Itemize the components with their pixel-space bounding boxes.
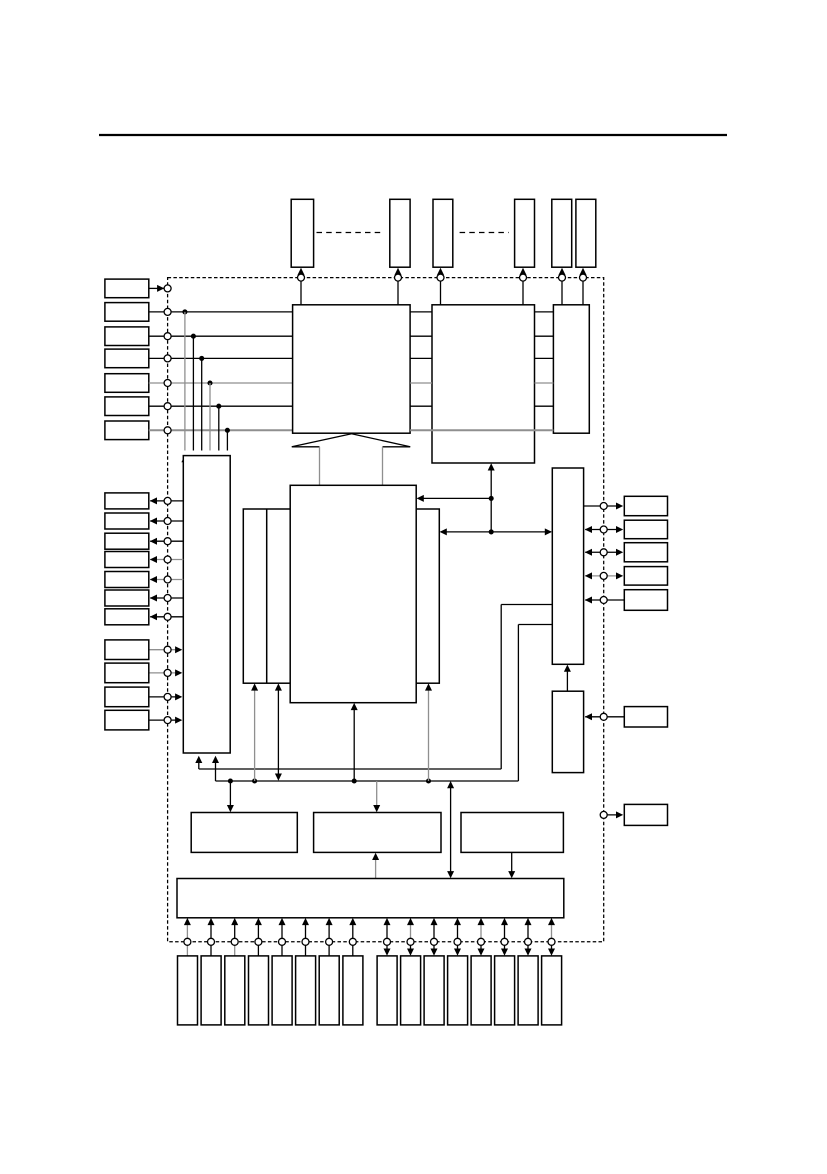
box D2 (bottom-middle): [314, 813, 441, 853]
left output box B3: [105, 533, 149, 549]
left input wire n1: [149, 646, 183, 653]
wire D3 to U9: [508, 852, 515, 878]
right io box R6: [624, 707, 667, 727]
bus line 1 U4 to U7: [195, 605, 552, 770]
right terminal wire 2: [585, 526, 623, 533]
bottom terminal a2: [208, 918, 215, 956]
bottom terminal a8: [349, 918, 356, 956]
wire row 4 from box A5 to block U1: [149, 380, 293, 387]
bottom terminal b8: [548, 918, 555, 956]
wire W2 U5-U7 bidirectional: [440, 528, 552, 535]
left input wire n3: [149, 693, 183, 700]
right terminal wire 7: [600, 811, 623, 818]
right terminal wire 3: [585, 549, 623, 556]
tap wire 1 to block U4: [181, 309, 188, 462]
left input box A3: [105, 327, 149, 346]
bottom terminal b5: [478, 918, 485, 956]
wire from node J1 up into U2: [488, 463, 495, 534]
tap wire 4 to block U4: [207, 380, 214, 462]
right io box R1: [624, 496, 667, 515]
bottom terminal b4: [454, 918, 461, 956]
left input box C4: [105, 710, 149, 730]
bottom box F1: [377, 956, 397, 1025]
bottom box F3: [424, 956, 444, 1025]
top pin box T5: [552, 199, 572, 267]
wire U8 to U7: [564, 665, 571, 692]
tap wire 3 to block U4: [198, 356, 205, 462]
bidir wire bus2 to U9: [447, 781, 454, 878]
bus stub U1-U2 row 4: [410, 382, 432, 384]
top terminal wire 4: [520, 268, 527, 306]
bus stub U1-U2 row 1: [410, 311, 432, 313]
bottom terminal a3: [231, 918, 238, 956]
left input wire n4: [149, 717, 183, 724]
left output wire m2: [150, 518, 184, 525]
top pin box T4: [515, 199, 535, 267]
top pin box T1: [291, 199, 313, 267]
bottom box F6: [495, 956, 515, 1025]
branch up to U5 (left, gray): [251, 683, 258, 783]
top terminal wire 3: [437, 268, 444, 306]
wire A1 to boundary terminal: [149, 285, 171, 292]
left input wire n2: [149, 669, 183, 676]
bottom box F2: [401, 956, 421, 1025]
left input box A5: [105, 374, 149, 393]
wide block-arrow from U6 into U1: [292, 434, 410, 486]
right io box R7: [624, 804, 667, 825]
gray bus row 6 over U2: [410, 429, 553, 431]
bus stub U1-U2 row 2: [410, 335, 432, 337]
ellipsis dash between T3 and T4: [460, 232, 509, 234]
right terminal wire 5: [585, 597, 625, 604]
left output wire m3: [150, 538, 184, 545]
chip boundary (dashed): [168, 278, 604, 942]
bus stub U1-U2 row 5: [410, 405, 432, 407]
block U7 (right tall): [552, 468, 583, 664]
bottom terminal b7: [525, 918, 532, 956]
bottom terminal a4: [255, 918, 262, 956]
tap wire 6 to block U4: [224, 428, 231, 462]
right terminal wire 1: [584, 503, 624, 510]
bottom box E6: [296, 956, 316, 1025]
left output box B4: [105, 552, 149, 568]
bottom box E7: [319, 956, 339, 1025]
block U6 (center inner, overlaps U5): [290, 485, 416, 702]
tap wire 5 to block U4: [215, 404, 222, 463]
box D1 (bottom-left): [191, 813, 297, 853]
right io box R3: [624, 543, 667, 562]
right io box R2: [624, 520, 667, 539]
left output wire m4: [150, 556, 184, 563]
block U4 (left tall): [183, 456, 230, 753]
header rule: [99, 134, 727, 136]
divider in U5: [266, 509, 268, 683]
left input box A4: [105, 349, 149, 368]
left output box B6: [105, 590, 149, 606]
branch to box D1: [227, 778, 234, 812]
left output box B5: [105, 572, 149, 588]
top pin box T2: [390, 199, 410, 267]
left output box B7: [105, 609, 149, 625]
block U1 (top-left): [293, 305, 411, 433]
bottom terminal a5: [279, 918, 286, 956]
box D3 (bottom-right): [461, 813, 563, 853]
bus stub U2-U3 row 3: [535, 357, 554, 359]
left output box B2: [105, 513, 149, 529]
bottom terminal a7: [326, 918, 333, 956]
bus stub U2-U3 row 4: [535, 382, 554, 384]
bottom box E4: [249, 956, 269, 1025]
wire row 6 from box A7 to block U1: [149, 427, 293, 434]
wire row 5 from box A6 to block U1: [149, 403, 293, 410]
tap wire 2 to block U4: [190, 334, 197, 463]
left input box A1: [105, 279, 149, 298]
wire U9 to D2 (gray): [372, 853, 379, 879]
top terminal wire 5: [559, 268, 566, 306]
bottom box F8: [542, 956, 562, 1025]
bottom box F4: [448, 956, 468, 1025]
block U8 (right lower): [552, 691, 583, 772]
bus stub U2-U3 row 1: [535, 311, 554, 313]
left input box C1: [105, 640, 149, 660]
branch up to U5 (right, gray): [425, 683, 432, 783]
top terminal wire 6: [580, 268, 587, 306]
right terminal wire 6: [585, 713, 625, 720]
wire row 2 from box A3 to block U1: [149, 333, 293, 340]
bus stub U2-U3 row 2: [535, 335, 554, 337]
left input box A2: [105, 303, 149, 322]
branch up to U6: [351, 703, 358, 784]
top terminal wire 1: [298, 268, 305, 306]
block U3 (top-right narrow): [553, 305, 589, 433]
left input box A6: [105, 397, 149, 416]
bottom box E2: [201, 956, 221, 1025]
left output wire m6: [150, 595, 184, 602]
left output wire m5: [150, 576, 184, 583]
bottom terminal b2: [407, 918, 414, 956]
bottom box F5: [471, 956, 491, 1025]
bus stub U2-U3 row 5: [535, 405, 554, 407]
right terminal wire 4: [585, 572, 623, 579]
block U2 (top-middle): [432, 305, 535, 463]
block U5 (center outer): [243, 509, 439, 683]
bottom box E3: [225, 956, 245, 1025]
top pin box T3: [433, 199, 453, 267]
bottom box F7: [518, 956, 538, 1025]
branch down to box D2 (gray): [373, 781, 380, 812]
bottom terminal b1: [384, 918, 391, 956]
top terminal wire 2: [395, 268, 402, 306]
block U9 (wide bottom): [177, 879, 564, 918]
wire row 3 from box A4 to block U1: [149, 355, 293, 362]
bottom box E8: [343, 956, 363, 1025]
bus stub U1-U2 row 3: [410, 357, 432, 359]
top pin box T6: [576, 199, 596, 267]
bottom terminal a6: [302, 918, 309, 956]
left output wire m7: [150, 613, 184, 620]
right io box R5: [624, 590, 667, 611]
branch bidir to U5: [275, 683, 282, 780]
bottom terminal a1: [184, 918, 191, 956]
left input box C2: [105, 663, 149, 683]
bottom terminal b3: [431, 918, 438, 956]
left input box A7: [105, 421, 149, 440]
ellipsis dash between T1 and T2: [317, 232, 385, 234]
bottom box E5: [272, 956, 292, 1025]
left input box C3: [105, 687, 149, 707]
left output box B1: [105, 493, 149, 509]
bottom terminal b6: [501, 918, 508, 956]
bottom box E1: [178, 956, 198, 1025]
wire W1 into U6 right: [417, 495, 492, 502]
right io box R4: [624, 567, 667, 586]
left output wire m1: [150, 497, 184, 504]
bus line 2 U4 to U7: [212, 625, 552, 782]
wire row 1 from box A2 to block U1: [149, 308, 293, 315]
